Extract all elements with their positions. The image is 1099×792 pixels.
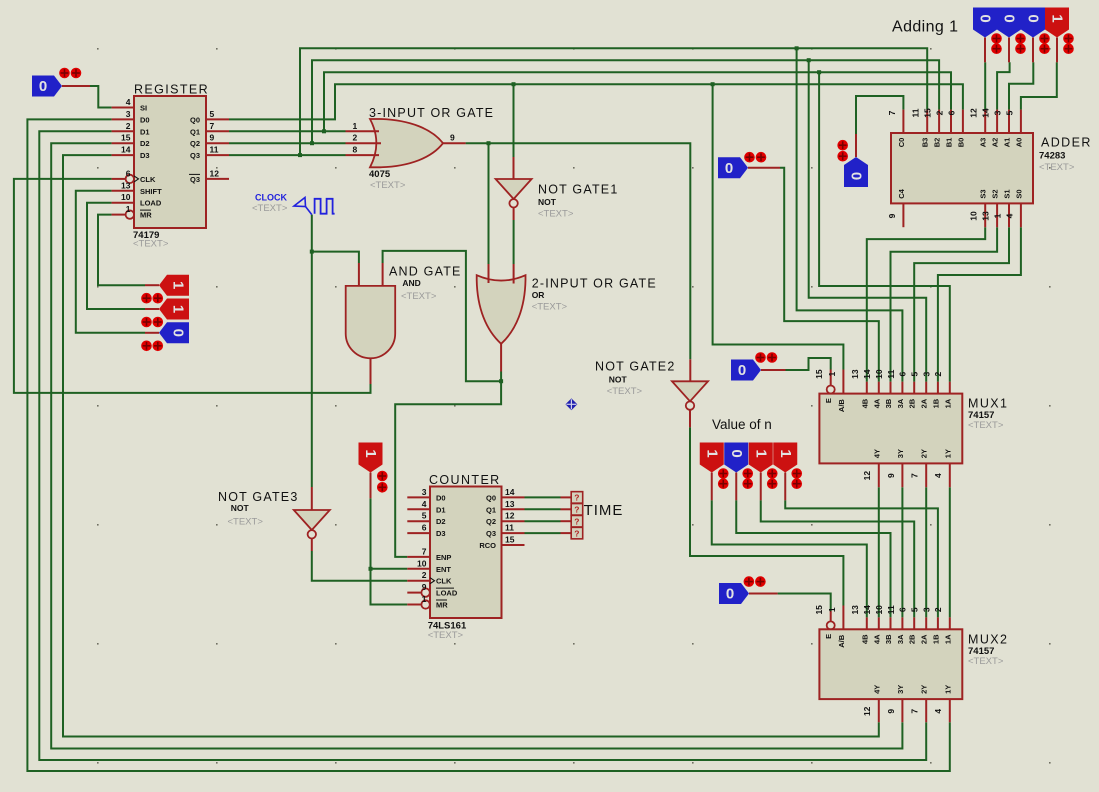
svg-text:<TEXT>: <TEXT> — [401, 291, 437, 302]
svg-text:Q2: Q2 — [486, 517, 496, 526]
svg-text:1B: 1B — [931, 634, 940, 644]
adding1 stub — [1056, 38, 1058, 63]
svg-text:D2: D2 — [140, 139, 150, 148]
wire n bit1 to MUX2 2B — [761, 500, 914, 617]
svg-text:LOAD: LOAD — [140, 199, 162, 208]
toggle buttons — [744, 152, 766, 163]
toggle buttons — [1015, 33, 1026, 54]
svg-text:3: 3 — [992, 110, 1002, 115]
svg-text:3A: 3A — [896, 398, 905, 408]
svg-text:Q0: Q0 — [190, 115, 200, 124]
svg-text:6: 6 — [126, 168, 131, 178]
svg-text:7: 7 — [910, 709, 920, 714]
toggle buttons — [1039, 33, 1050, 54]
svg-text:D3: D3 — [436, 529, 446, 538]
svg-text:5: 5 — [1004, 110, 1014, 115]
wire net MUX2 2Y to D1 — [39, 131, 926, 760]
wire Q0 branch to MUX1 select — [713, 84, 844, 369]
svg-text:A/B: A/B — [837, 399, 846, 413]
svg-text:Adding 1: Adding 1 — [892, 19, 958, 36]
wire MUX1 Y to MUX2 A — [925, 487, 927, 617]
MR state stub — [145, 284, 159, 286]
svg-text:7: 7 — [887, 110, 897, 115]
logic state SHIFT source (0) — [159, 322, 189, 343]
svg-text:4B: 4B — [860, 634, 869, 644]
wire Q3 up to adder B3 — [300, 48, 927, 155]
wire counter Q to probe — [525, 508, 561, 510]
svg-text:6: 6 — [946, 110, 956, 115]
wire logic 1 to counter ENT — [371, 498, 408, 569]
svg-text:<TEXT>: <TEXT> — [968, 656, 1004, 667]
svg-text:E: E — [824, 634, 833, 639]
svg-text:14: 14 — [862, 605, 872, 615]
svg-text:NOT: NOT — [231, 503, 250, 513]
svg-text:0: 0 — [170, 329, 187, 337]
svg-text:2B: 2B — [908, 634, 917, 644]
mux1 MUX1 74157 — [814, 369, 1008, 480]
logic state adding1 bit2 (0) — [997, 8, 1021, 38]
wire MUX1 Y to MUX2 A — [878, 487, 880, 617]
wire NOT3 out to counter CLK — [312, 551, 408, 581]
svg-text:<TEXT>: <TEXT> — [428, 630, 464, 641]
mux1 pin stubs — [831, 370, 950, 488]
wire Q1 up to adder B1 — [324, 72, 951, 131]
counter LOAD bubble — [421, 588, 429, 596]
svg-text:14: 14 — [121, 145, 131, 155]
svg-text:9: 9 — [886, 709, 896, 714]
svg-text:5: 5 — [210, 109, 215, 119]
svg-text:LOAD: LOAD — [436, 589, 458, 598]
svg-text:S1: S1 — [1003, 189, 1012, 198]
svg-text:1: 1 — [170, 281, 187, 289]
svg-text:AND GATE: AND GATE — [389, 265, 462, 279]
NOT2 stubs — [689, 359, 691, 427]
counter pin stubs — [407, 497, 524, 604]
svg-text:14: 14 — [862, 369, 872, 379]
wire logic 0 to MUX2 E — [778, 594, 831, 612]
svg-text:1: 1 — [1049, 14, 1066, 22]
svg-text:4: 4 — [933, 473, 943, 478]
toggle buttons — [767, 468, 778, 489]
mux1 E bubble — [827, 386, 835, 394]
svg-text:NOT GATE1: NOT GATE1 — [538, 183, 619, 197]
svg-text:S3: S3 — [979, 189, 988, 198]
svg-text:ADDER: ADDER — [1041, 136, 1092, 150]
wire OR out branch to 2-OR input A — [488, 143, 490, 264]
svg-text:D0: D0 — [436, 493, 446, 502]
svg-text:3-INPUT OR GATE: 3-INPUT OR GATE — [369, 106, 494, 120]
svg-text:D2: D2 — [436, 517, 446, 526]
svg-text:Q3: Q3 — [190, 175, 200, 184]
svg-text:1A: 1A — [943, 634, 952, 644]
toggle buttons — [141, 317, 163, 328]
svg-text:13: 13 — [850, 369, 860, 379]
svg-text:2: 2 — [933, 371, 943, 376]
wire S3 to MUX1 4B — [867, 227, 985, 382]
svg-text:1: 1 — [777, 449, 794, 457]
svg-text:9: 9 — [887, 213, 897, 218]
NOT1 stubs — [513, 157, 515, 220]
mux2 E bubble — [827, 621, 835, 629]
svg-text:Q1: Q1 — [190, 127, 200, 136]
toggle buttons — [837, 140, 848, 162]
value n stub — [784, 473, 786, 501]
svg-text:MUX2: MUX2 — [968, 632, 1008, 646]
svg-text:D3: D3 — [140, 151, 150, 160]
svg-text:?: ? — [574, 528, 579, 538]
svg-text:12: 12 — [862, 471, 872, 481]
svg-text:B0: B0 — [956, 138, 965, 148]
svg-text:B1: B1 — [945, 138, 954, 148]
svg-text:13: 13 — [505, 499, 515, 509]
svg-text:E: E — [824, 398, 833, 403]
svg-text:CLOCK: CLOCK — [255, 193, 287, 203]
logic state adding1 bit3 (0) — [973, 8, 997, 38]
svg-text:1: 1 — [362, 449, 379, 457]
svg-text:3B: 3B — [884, 398, 893, 408]
svg-text:0: 0 — [728, 449, 745, 457]
svg-text:Q1: Q1 — [486, 505, 496, 514]
svg-text:3: 3 — [921, 371, 931, 376]
or gate 2-input (rotated down) — [477, 275, 526, 344]
svg-text:AND: AND — [402, 278, 420, 288]
wire counter Q to probe — [525, 496, 561, 498]
toggle buttons — [141, 341, 163, 352]
mux2 pin stubs — [831, 606, 950, 723]
svg-text:NOT GATE3: NOT GATE3 — [218, 490, 299, 504]
svg-text:4: 4 — [126, 97, 131, 107]
not gate NOT3 (rotated down) — [294, 510, 330, 539]
svg-text:11: 11 — [210, 145, 219, 155]
wire Q2 branch to MUX1 2A — [809, 60, 927, 382]
svg-text:10: 10 — [874, 369, 884, 379]
toggle buttons — [742, 468, 753, 489]
logic state value n bit1 (1) — [749, 443, 773, 473]
svg-text:0: 0 — [39, 78, 47, 95]
svg-text:A1: A1 — [1003, 138, 1012, 148]
adder pin stubs — [903, 110, 1021, 228]
wire 2-OR out branch to AND input B — [383, 251, 502, 381]
wire net Q0 to adder B0 — [229, 84, 963, 119]
adding1 stub — [984, 38, 986, 63]
logic state SI source (0) — [32, 76, 62, 97]
svg-text:15: 15 — [121, 133, 131, 143]
svg-text:3Y: 3Y — [896, 685, 905, 694]
svg-text:11: 11 — [886, 369, 896, 378]
svg-text:1: 1 — [827, 371, 837, 376]
svg-text:S0: S0 — [1014, 189, 1023, 198]
svg-text:A2: A2 — [991, 138, 1000, 148]
svg-text:2: 2 — [934, 110, 944, 115]
svg-text:9: 9 — [210, 133, 215, 143]
svg-text:<TEXT>: <TEXT> — [968, 420, 1004, 431]
adding1 stub — [1008, 38, 1010, 63]
register MR bubble — [126, 210, 134, 218]
wire Q1 to OR input 1 — [229, 130, 346, 132]
svg-text:NOT: NOT — [609, 374, 628, 384]
svg-text:A3: A3 — [979, 138, 988, 148]
svg-text:4A: 4A — [872, 634, 881, 644]
svg-text:<TEXT>: <TEXT> — [370, 180, 406, 191]
C0 state stub — [855, 134, 857, 157]
svg-text:4075: 4075 — [369, 169, 391, 180]
wire state to A2 — [997, 62, 1010, 109]
svg-text:11: 11 — [505, 523, 514, 533]
svg-text:<TEXT>: <TEXT> — [538, 209, 574, 220]
svg-text:2A: 2A — [920, 634, 929, 644]
svg-text:10: 10 — [121, 192, 131, 202]
svg-text:A/B: A/B — [837, 634, 846, 648]
svg-text:3Y: 3Y — [896, 449, 905, 458]
wire LOAD net — [87, 203, 145, 309]
svg-text:<TEXT>: <TEXT> — [532, 301, 568, 312]
svg-text:D0: D0 — [140, 115, 150, 124]
svg-text:MUX1: MUX1 — [968, 397, 1008, 411]
svg-text:0: 0 — [738, 362, 746, 379]
svg-text:?: ? — [574, 493, 579, 503]
toggle buttons — [59, 68, 81, 79]
svg-text:9: 9 — [886, 473, 896, 478]
logic state value n bit3 (1) — [700, 443, 724, 473]
logic state adding1 bit1 (0) — [1021, 8, 1045, 38]
wire Q3 branch to MUX1 3A — [797, 48, 903, 381]
wire n bit0 to MUX2 1B — [785, 500, 938, 617]
clock generator symbol — [252, 193, 335, 215]
svg-text:Value of n: Value of n — [712, 417, 772, 432]
svg-text:2: 2 — [353, 133, 358, 143]
svg-text:15: 15 — [814, 369, 824, 379]
wire Q0 branch to NOT1 — [513, 84, 515, 157]
svg-text:3: 3 — [422, 487, 427, 497]
svg-text:1: 1 — [422, 594, 427, 604]
adder U3 74283 — [887, 108, 1092, 221]
svg-text:14: 14 — [981, 108, 991, 118]
svg-text:4Y: 4Y — [872, 685, 881, 694]
svg-text:C4: C4 — [897, 188, 906, 198]
svg-text:CLK: CLK — [436, 577, 452, 586]
svg-text:13: 13 — [121, 180, 131, 190]
wire state to A3 — [984, 62, 986, 109]
svg-text:14: 14 — [505, 487, 515, 497]
svg-text:MR: MR — [436, 601, 448, 610]
toggle buttons — [141, 293, 163, 304]
svg-text:7: 7 — [422, 546, 427, 556]
wire S1 to MUX1 2B — [914, 227, 1009, 382]
or2 input stubs — [489, 264, 514, 372]
svg-text:1: 1 — [126, 204, 131, 214]
MUX2 E state stub — [749, 593, 778, 595]
svg-text:5: 5 — [422, 511, 427, 521]
logic state MR source (1) — [159, 275, 189, 296]
svg-text:4: 4 — [422, 499, 427, 509]
svg-text:13: 13 — [850, 605, 860, 615]
svg-text:1: 1 — [170, 305, 187, 313]
wire logic 0 to MUX1 4A — [780, 168, 879, 382]
svg-text:RCO: RCO — [479, 541, 496, 550]
toggle buttons — [1063, 33, 1074, 54]
wire logic 0 to adder C0 — [856, 96, 903, 134]
origin marker diamond — [565, 398, 577, 410]
logic state LOAD source (1) — [159, 299, 189, 320]
toggle buttons — [991, 33, 1002, 54]
NOT3 stubs — [311, 487, 313, 551]
svg-text:2: 2 — [422, 570, 427, 580]
svg-text:3: 3 — [921, 607, 931, 612]
svg-text:0: 0 — [848, 172, 865, 180]
svg-text:1: 1 — [992, 213, 1002, 218]
or gate pin numbers — [353, 121, 456, 155]
svg-text:<TEXT>: <TEXT> — [252, 203, 288, 214]
svg-text:10: 10 — [417, 558, 427, 568]
wire clock to NOT3 — [311, 215, 313, 487]
svg-text:0: 0 — [1001, 14, 1018, 22]
MUX1 E state stub — [761, 369, 786, 371]
svg-text:<TEXT>: <TEXT> — [607, 386, 643, 397]
register pin stubs — [112, 108, 229, 215]
svg-text:REGISTER: REGISTER — [134, 83, 209, 97]
svg-text:2: 2 — [933, 607, 943, 612]
svg-text:?: ? — [574, 516, 579, 526]
svg-text:7: 7 — [910, 473, 920, 478]
svg-text:10: 10 — [874, 605, 884, 615]
wire counter Q to probe — [525, 520, 561, 522]
not gate NOT1 (rotated down) — [496, 179, 532, 208]
svg-text:2B: 2B — [908, 398, 917, 408]
register U1 74179 — [121, 83, 219, 250]
wire net MUX2 4Y to D3 — [63, 155, 879, 736]
svg-text:5: 5 — [910, 607, 920, 612]
svg-text:<TEXT>: <TEXT> — [133, 238, 169, 249]
svg-text:D1: D1 — [436, 505, 446, 514]
wire Q2 up to adder B2 — [312, 60, 939, 143]
SI state stub — [62, 85, 90, 87]
svg-text:2Y: 2Y — [920, 449, 929, 458]
svg-text:1: 1 — [752, 449, 769, 457]
svg-text:Q2: Q2 — [190, 139, 200, 148]
svg-text:2-INPUT OR GATE: 2-INPUT OR GATE — [532, 277, 657, 291]
svg-text:B2: B2 — [933, 138, 942, 148]
svg-text:5: 5 — [910, 371, 920, 376]
value n stub — [760, 473, 762, 501]
svg-text:0: 0 — [977, 14, 994, 22]
svg-text:SHIFT: SHIFT — [140, 187, 162, 196]
ENT state stub — [370, 473, 372, 499]
svg-text:OR: OR — [532, 290, 545, 300]
wire MUX1 Y to MUX2 A — [949, 487, 951, 617]
wire S2 to MUX1 3B — [891, 227, 998, 382]
svg-text:B3: B3 — [921, 138, 930, 148]
logic probes TIME — [571, 492, 583, 539]
svg-text:Q3: Q3 — [486, 529, 496, 538]
toggle buttons — [377, 471, 388, 493]
svg-text:6: 6 — [898, 607, 908, 612]
svg-text:12: 12 — [210, 168, 220, 178]
svg-text:6: 6 — [898, 371, 908, 376]
svg-text:0: 0 — [1025, 14, 1042, 22]
svg-text:1A: 1A — [943, 398, 952, 408]
logic state MUX2 E source (0) — [719, 583, 749, 604]
svg-text:12: 12 — [862, 706, 872, 716]
svg-text:SI: SI — [140, 104, 147, 113]
svg-text:Q3: Q3 — [190, 151, 200, 160]
svg-text:9: 9 — [422, 582, 427, 592]
register CLK bubble — [126, 175, 134, 183]
svg-text:<TEXT>: <TEXT> — [1039, 162, 1075, 173]
toggle buttons — [755, 352, 777, 363]
svg-text:A0: A0 — [1014, 138, 1023, 148]
logic state value n bit0 (1) — [773, 443, 797, 473]
wire MR net — [98, 215, 145, 286]
value n stub — [735, 473, 737, 501]
svg-text:1: 1 — [353, 121, 358, 131]
svg-text:NOT GATE2: NOT GATE2 — [595, 360, 676, 374]
svg-text:4: 4 — [933, 709, 943, 714]
wire 2-OR out to counter ENP — [395, 372, 501, 557]
svg-text:4B: 4B — [860, 398, 869, 408]
svg-text:12: 12 — [969, 108, 979, 118]
logic state MUX1 4A source (0) — [718, 157, 748, 178]
svg-text:CLK: CLK — [140, 175, 156, 184]
svg-text:9: 9 — [450, 133, 455, 143]
SHIFT state stub — [145, 332, 159, 334]
svg-text:TIME: TIME — [584, 502, 624, 519]
svg-text:11: 11 — [911, 108, 921, 117]
not gate NOT2 (rotated down) — [672, 381, 708, 410]
svg-text:COUNTER: COUNTER — [429, 473, 501, 487]
logic state MUX1 E source (0) — [731, 360, 761, 381]
wire SHIFT net — [76, 191, 145, 333]
mux2 MUX2 74157 — [814, 605, 1008, 716]
svg-text:15: 15 — [505, 535, 515, 545]
wire net MUX2 1Y to D0 — [27, 119, 949, 771]
svg-text:7: 7 — [210, 121, 215, 131]
logic state ENT source (1) — [359, 443, 383, 473]
svg-text:3: 3 — [126, 109, 131, 119]
wire OR out to NOT2 — [466, 143, 691, 359]
svg-text:Q0: Q0 — [486, 493, 496, 502]
svg-text:13: 13 — [981, 211, 991, 221]
svg-text:C0: C0 — [897, 138, 906, 148]
probe pin stubs — [561, 497, 572, 533]
toggle buttons — [718, 468, 729, 489]
svg-text:3A: 3A — [896, 634, 905, 644]
wire NOT1 out to 2-OR input B — [513, 220, 515, 264]
toggle buttons — [744, 576, 766, 587]
wire S0 to MUX1 1B — [938, 227, 1021, 382]
svg-text:1Y: 1Y — [943, 685, 952, 694]
svg-text:4Y: 4Y — [872, 449, 881, 458]
wire Q3 to OR input 8 — [229, 154, 346, 156]
toggle buttons — [791, 468, 802, 489]
svg-text:1: 1 — [827, 607, 837, 612]
svg-text:<TEXT>: <TEXT> — [228, 517, 264, 528]
svg-text:S2: S2 — [991, 189, 1000, 198]
wire MUX1 Y to MUX2 A — [901, 487, 903, 617]
or gate 3-input 4075 — [370, 119, 443, 167]
wire net MUX2 3Y to D2 — [51, 143, 902, 748]
svg-text:ENT: ENT — [436, 565, 451, 574]
svg-text:0: 0 — [725, 160, 733, 177]
wire NOT2 out to MUX2 select — [690, 427, 843, 605]
wire SI input net — [90, 86, 112, 108]
svg-text:NOT: NOT — [538, 197, 557, 207]
wire n bit3 to MUX2 4B — [712, 500, 867, 617]
logic state value n bit2 (0) — [724, 443, 748, 473]
svg-text:4: 4 — [1004, 213, 1014, 218]
logic state C0 source (0) — [844, 157, 868, 187]
svg-text:D1: D1 — [140, 127, 150, 136]
svg-text:10: 10 — [969, 211, 979, 221]
